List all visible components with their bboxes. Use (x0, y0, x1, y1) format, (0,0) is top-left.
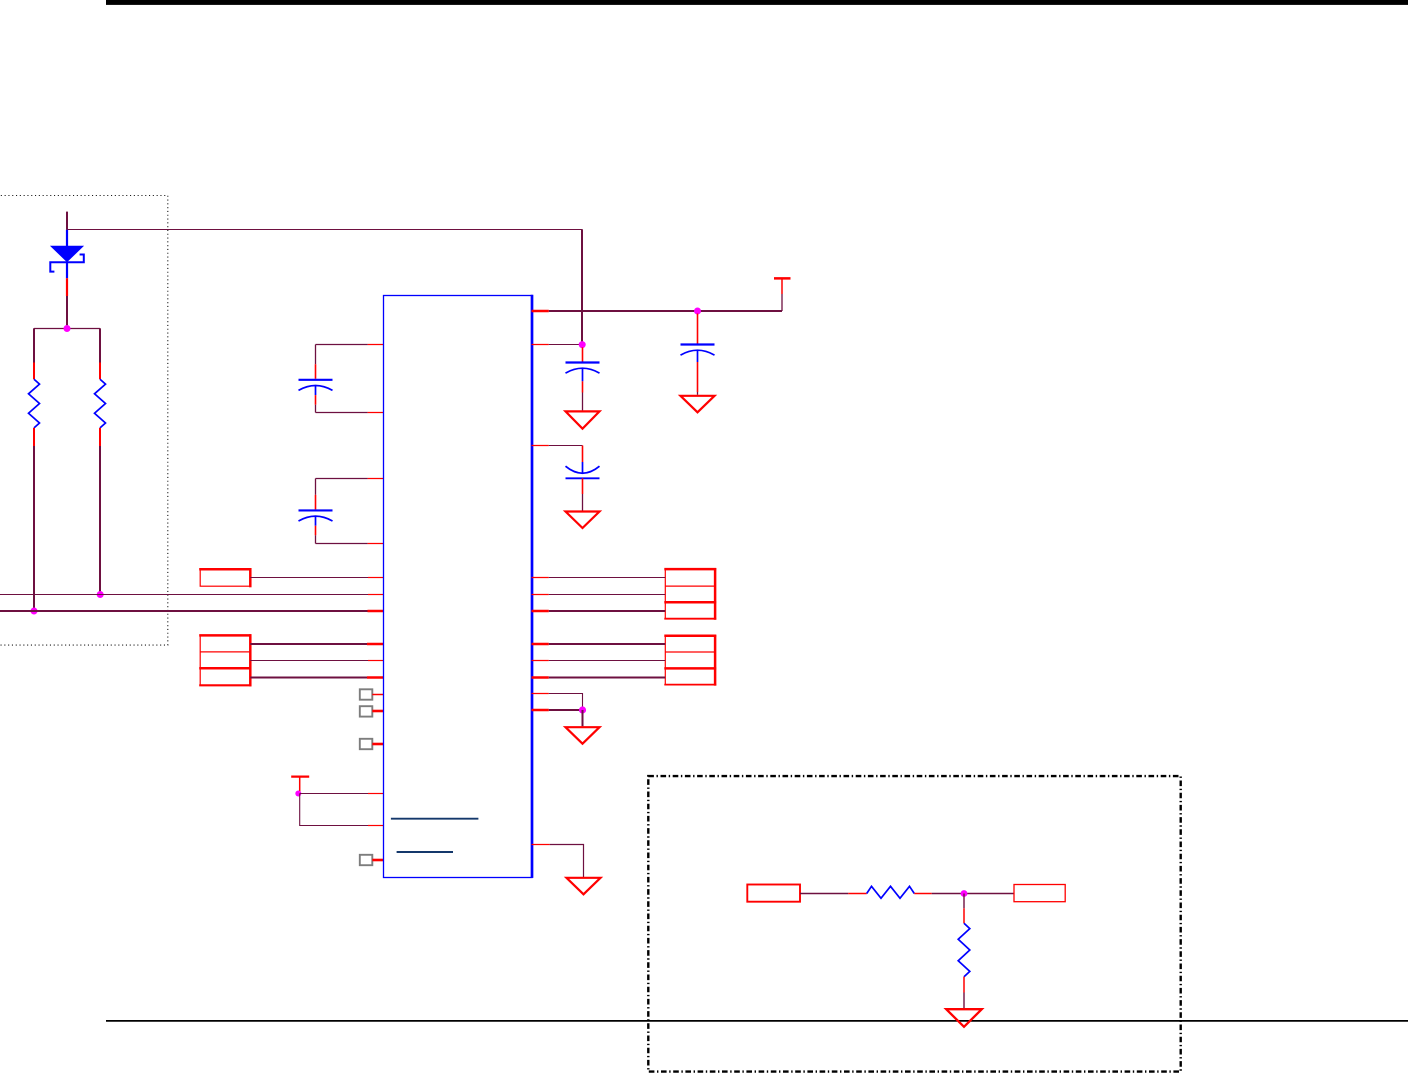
pin stub thin (368, 594, 384, 596)
sheet entry box EL (bottom box) (747, 885, 800, 902)
capacitor C2 (flipped) (566, 446, 600, 511)
junction dot power node (295, 791, 301, 797)
wire L2 row3 to IC (250, 676, 367, 678)
ground G2 (681, 396, 715, 413)
wire R4 to ground (963, 993, 965, 1009)
wire thin net left edge to IC (0, 594, 368, 596)
wire to C2 (549, 445, 583, 447)
ground G6 (567, 878, 601, 895)
ground G3 (566, 512, 600, 529)
resistor R1 (left) (29, 328, 40, 611)
pin stub (367, 676, 384, 679)
junction dot node E (694, 308, 701, 315)
sheet entry box L1 (199, 568, 251, 587)
wire thick net left edge to IC (0, 610, 368, 612)
ground G4 (946, 1009, 982, 1027)
resistor R3 (horizontal) (867, 886, 915, 898)
pin stub right (532, 344, 549, 346)
capacitor C3 (681, 314, 715, 395)
wire power node down and right to IC pin (300, 794, 368, 826)
no-connect square pin 2 (360, 706, 384, 716)
IC U1 body (384, 296, 533, 878)
IC pin-name overline 2 (397, 851, 453, 853)
wire L2 row2 to IC (250, 660, 368, 662)
junction dot node F (579, 706, 586, 713)
wire VCC rail (549, 310, 782, 312)
wire L2 row1 to IC (250, 643, 367, 645)
sheet entry box ER (bottom box) (1014, 885, 1065, 902)
pin stub (368, 660, 384, 662)
pin stub (368, 577, 384, 579)
sheet entry block L2 (3 rows) (199, 634, 251, 686)
resistor R2 (right) (95, 328, 106, 594)
capacitor CB (lower bypass) (299, 479, 385, 544)
R3 pin red (848, 893, 866, 895)
wire diode to resistor tee (66, 296, 68, 328)
wire net from diode node to IC vertical (67, 229, 583, 231)
R3 pin red (914, 893, 931, 895)
wire node F to ground (582, 710, 584, 726)
pin stub + wire row2 (532, 594, 549, 596)
pin stub + wire row3 thick (532, 610, 549, 613)
junction dot node D (579, 341, 586, 348)
wire resistor top tee (34, 328, 100, 330)
junction dot node G (961, 890, 968, 897)
dotted enclosure box (input protection) (0, 196, 168, 646)
pin stub (368, 793, 384, 795)
sheet border top bar (106, 0, 1408, 5)
wire L1 to IC (250, 577, 368, 579)
dash-dot enclosure box (divider network) (648, 776, 1180, 1072)
wire EL to R3 (800, 893, 848, 895)
pin stub + wire row2 (532, 660, 549, 662)
pin stub thick (368, 610, 385, 613)
pin stub + wire to node F (upper) (532, 693, 549, 695)
pin stub right VCC (532, 310, 549, 313)
wire riser to power tap right (781, 294, 783, 311)
resistor R4 (vertical) (958, 923, 970, 976)
wire node G down (963, 894, 965, 909)
ground G1 (566, 411, 600, 428)
power tap symbol right (774, 278, 791, 294)
junction dot node A (64, 325, 71, 332)
pin stub + wire row1 (532, 577, 549, 579)
TVS diode D1 (50, 230, 84, 278)
pin stub + wire row1 thick (532, 643, 549, 646)
no-connect square pin 1 (360, 689, 384, 699)
sheet entry block R1 (3 rows) (664, 568, 716, 620)
IC pin-name overline 1 (391, 818, 479, 820)
sheet border bottom line (106, 1020, 1408, 1022)
pin stub + wire row3 thick (532, 676, 549, 679)
IC U1 right edge thick (531, 295, 534, 878)
diode anode pin (red) (66, 278, 68, 296)
pin stub (367, 643, 384, 646)
capacitor CA (upper bypass) (299, 345, 385, 413)
pin stub bottom right + wire to ground (532, 844, 550, 846)
junction dot node B (31, 608, 38, 615)
pin stub right (Vcap) (532, 445, 549, 447)
wire vertical net into node D (581, 230, 583, 345)
pin stub + wire to node F (lower, thick) (532, 709, 549, 712)
wire R3 to node G and entry ER (932, 893, 1014, 895)
wire power node to IC pin (300, 793, 368, 795)
R4 pin red (963, 908, 965, 923)
pin stub (368, 825, 384, 827)
junction dot node C (97, 591, 104, 598)
capacitor C1 (566, 347, 600, 410)
wire pin to node D (549, 344, 582, 346)
power tap symbol left (291, 777, 309, 794)
R4 pin red (963, 977, 965, 993)
no-connect square pin 4 (360, 855, 384, 865)
no-connect square pin 3 (360, 739, 384, 749)
wire stub above diode (66, 212, 68, 230)
sheet entry block R2 (3 rows) (664, 635, 716, 686)
ground G5 (566, 727, 600, 744)
